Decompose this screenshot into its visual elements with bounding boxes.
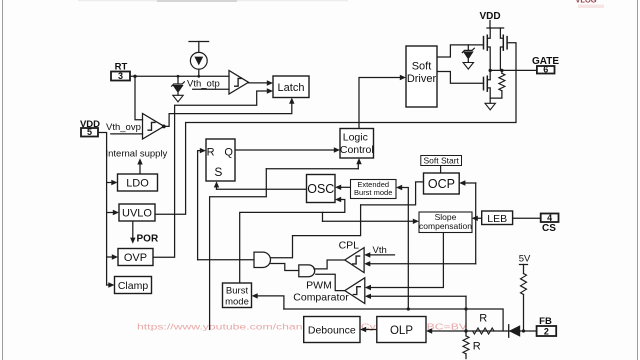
svg-text:OCP: OCP xyxy=(428,177,455,191)
wire slope compensation to PWM comparator xyxy=(371,233,443,288)
wire POR arrow xyxy=(132,221,134,238)
wire VDD rail of driver xyxy=(489,21,491,29)
wire to AND gate A left input xyxy=(198,259,254,261)
transistor upper right mirrored xyxy=(506,37,508,49)
frame right border xyxy=(637,0,639,360)
svg-text:Driver: Driver xyxy=(407,73,437,85)
svg-text:5: 5 xyxy=(87,127,92,137)
svg-text:R: R xyxy=(473,341,481,353)
wire OLP to Debounce xyxy=(367,329,377,331)
block Extended Burst mode xyxy=(351,180,397,199)
wire soft start to OCP xyxy=(440,166,442,173)
svg-text:3: 3 xyxy=(118,71,123,81)
block OLP xyxy=(377,317,426,343)
pin box RT 3 xyxy=(111,72,130,81)
wire to slope compensation input xyxy=(323,220,414,222)
diode in FB line xyxy=(508,325,510,337)
block Soft Driver xyxy=(406,46,437,107)
transistor lower NMOS xyxy=(483,77,485,89)
ground below driver xyxy=(485,103,495,110)
wire Burst mode top to OSC input xyxy=(240,200,345,284)
wire AND A to AND B xyxy=(271,264,299,271)
wire CPL output to AND B xyxy=(314,260,345,269)
wire R input from lower bus xyxy=(198,151,201,260)
wire burst mode input xyxy=(258,296,284,309)
svg-text:VDD: VDD xyxy=(479,11,500,22)
svg-text:OVP: OVP xyxy=(124,252,147,264)
block OVP xyxy=(118,249,153,266)
wire FB level to PWM comparator xyxy=(371,295,466,297)
wire GATE output node xyxy=(490,69,537,71)
ground below driver zener xyxy=(463,63,473,70)
svg-text:R: R xyxy=(479,313,487,325)
ground below RT zener xyxy=(173,95,183,102)
block Debounce xyxy=(304,317,360,343)
arrowheads xyxy=(267,80,273,85)
gate AND B xyxy=(299,265,315,277)
wire OSC to S input xyxy=(217,188,307,190)
wire Logic Control bottom input riser xyxy=(357,164,359,169)
op-amp PWM comparator xyxy=(345,278,365,304)
svg-text:Burst: Burst xyxy=(226,286,249,297)
wire Extended Burst mode to OSC xyxy=(341,186,351,188)
pin box VDD 5 xyxy=(81,128,98,137)
current source supply bar xyxy=(189,41,209,43)
node FB line junctions xyxy=(464,329,467,332)
zener diode in driver xyxy=(467,45,469,50)
svg-text:CS: CS xyxy=(542,223,556,234)
wire bus to OVP xyxy=(107,256,113,258)
svg-text:Q: Q xyxy=(224,146,233,158)
op-amp Vth_otp comparator xyxy=(229,71,249,95)
block RS flip-flop xyxy=(206,139,235,181)
svg-text:Vth_otp: Vth_otp xyxy=(187,79,220,90)
op-amp CPL comparator xyxy=(345,248,364,273)
block Clamp xyxy=(115,277,152,294)
block Slope compensation xyxy=(419,212,472,233)
svg-text:OSC: OSC xyxy=(307,182,334,196)
svg-text:POR: POR xyxy=(137,234,159,245)
wire 5V pullup xyxy=(520,264,528,266)
svg-text:Soft: Soft xyxy=(412,61,432,73)
node FB net junctions xyxy=(407,307,410,310)
block Burst mode xyxy=(223,283,252,308)
wire bus to Clamp xyxy=(107,284,109,286)
svg-text:Comparator: Comparator xyxy=(293,292,349,304)
svg-text:6: 6 xyxy=(543,65,548,75)
block Latch xyxy=(273,76,309,98)
wire FB node horizontal xyxy=(284,309,503,331)
svg-text:Logic: Logic xyxy=(343,132,368,144)
wire RT to OVP comparator xyxy=(135,76,143,120)
svg-text:VLOG: VLOG xyxy=(575,0,596,4)
wire internal supply arrow xyxy=(139,164,141,174)
transistor upper PMOS left xyxy=(483,37,485,49)
block Logic Control xyxy=(340,129,374,159)
wire bus to UVLO xyxy=(107,212,114,214)
resistor gate pulldown xyxy=(501,70,503,73)
svg-text:4: 4 xyxy=(547,213,552,223)
pin box FB 2 xyxy=(537,326,557,336)
svg-text:Control: Control xyxy=(340,144,374,156)
block UVLO xyxy=(119,204,155,221)
resistor R lower divider xyxy=(465,331,467,336)
wire FB pin line xyxy=(432,330,537,332)
gate AND A xyxy=(254,252,270,267)
wire PWM output to AND B xyxy=(316,274,345,290)
svg-text:Clamp: Clamp xyxy=(118,280,149,292)
wire Soft Driver gate loop lower xyxy=(437,72,484,84)
block Soft Start xyxy=(421,156,462,166)
wire Logic Control to Soft Driver xyxy=(359,78,401,129)
svg-text:LEB: LEB xyxy=(487,213,507,225)
svg-text:FB: FB xyxy=(539,316,552,327)
block LEB xyxy=(482,211,513,225)
cropped title remnant top xyxy=(78,0,348,1)
svg-text:PWM: PWM xyxy=(306,280,332,292)
wire burst line drop to slope line xyxy=(322,212,324,221)
current source I1 xyxy=(190,52,207,69)
svg-text:mode: mode xyxy=(225,296,249,307)
svg-text:R: R xyxy=(207,146,215,158)
wire AND gate A output to OCP line xyxy=(271,205,361,258)
svg-text:Vth_ovp: Vth_ovp xyxy=(106,122,141,133)
op-amp Vth_ovp comparator xyxy=(143,114,165,140)
wire to OCP left input xyxy=(361,182,424,205)
svg-text:5V: 5V xyxy=(519,254,531,265)
wire Q output to Logic Control xyxy=(235,149,335,151)
wire UVLO to upper driver gate xyxy=(155,43,516,215)
svg-text:CPL: CPL xyxy=(339,239,360,251)
zener diode at RT xyxy=(177,76,179,83)
wire VDD pin to internal bus xyxy=(98,133,107,286)
wire Soft Driver gate loop upper xyxy=(437,45,484,57)
node ovp comparator output xyxy=(162,125,166,129)
svg-text:Vth: Vth xyxy=(373,245,387,256)
wire OVP block to Latch input2 xyxy=(153,91,267,257)
pin box CS 4 xyxy=(541,214,559,223)
svg-text:UVLO: UVLO xyxy=(122,208,152,220)
node RT junction xyxy=(133,75,136,78)
wire ovp comparator output to Latch bottom xyxy=(164,104,292,127)
svg-text:compensation: compensation xyxy=(419,221,472,231)
svg-text:2: 2 xyxy=(544,327,549,337)
pin box GATE 6 xyxy=(537,66,555,74)
wire CS pin to LEB to slope xyxy=(478,217,541,219)
wire Vth_otp reference line xyxy=(193,88,229,90)
svg-text:Soft Start: Soft Start xyxy=(423,155,459,165)
svg-text:S: S xyxy=(214,165,222,179)
svg-text:OLP: OLP xyxy=(390,325,413,337)
frame left border xyxy=(2,0,4,360)
wire RT horizontal xyxy=(130,75,229,77)
svg-text:Internal supply: Internal supply xyxy=(106,149,168,160)
svg-text:LDO: LDO xyxy=(126,178,149,190)
wire Debounce to Logic Control branch xyxy=(266,168,358,170)
svg-text:Debounce: Debounce xyxy=(308,324,356,336)
wire Vth reference of CPL xyxy=(370,254,394,256)
block OCP xyxy=(424,173,460,194)
wire otp comparator to Latch xyxy=(249,82,268,84)
resistor R horizontal in FB line xyxy=(473,328,494,334)
wire CS sense to OCP and CPL xyxy=(475,183,477,264)
wire Vth_ovp reference line xyxy=(111,133,143,135)
wire feedback riser to Extended Burst mode xyxy=(403,188,409,310)
wire bus to LDO xyxy=(107,182,112,184)
node CS sense junction xyxy=(474,217,477,220)
node gate output junctions xyxy=(489,69,492,72)
block LDO xyxy=(118,174,158,191)
block OSC xyxy=(307,175,336,203)
svg-text:Burst mode: Burst mode xyxy=(354,188,392,197)
svg-text:Latch: Latch xyxy=(278,82,305,94)
